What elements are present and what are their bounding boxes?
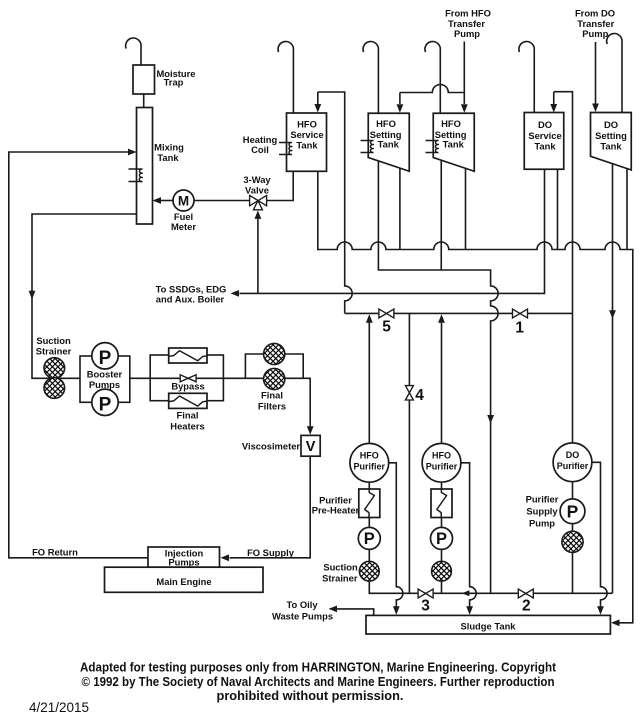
svg-text:Pre-Heater: Pre-Heater: [312, 504, 360, 515]
arrow into mixing tank (FO return): [128, 149, 137, 156]
svg-text:FO Return: FO Return: [32, 547, 78, 558]
wire HFO setting tank suction header to purifier suction manifold: [378, 161, 498, 593]
wire DO purifier sludge discharge: [592, 462, 607, 607]
valve 2: [518, 589, 533, 598]
final heaters parallel loop: [150, 355, 223, 401]
arrow left on purifier suction manifold: [462, 590, 470, 596]
heater box final heater bottom: [169, 393, 207, 408]
wire transfer manifold valves 5 and 1: [345, 312, 573, 314]
arrow up purifier 1 into manifold: [366, 314, 373, 323]
mixing tank: [137, 108, 153, 225]
svg-text:Tank: Tank: [296, 139, 318, 150]
svg-text:Supply: Supply: [526, 505, 558, 516]
booster pumps parallel loop: [80, 356, 130, 402]
svg-text:Setting: Setting: [595, 130, 627, 141]
svg-text:HFO: HFO: [432, 450, 451, 460]
wire HFO service tank fill line: [318, 92, 352, 313]
wire HFO purifier 2 sludge discharge: [461, 463, 476, 608]
valve 3: [418, 589, 433, 598]
purifier 2 suction strainer: [432, 561, 452, 581]
arrow down mid-line on tank outlet: [29, 291, 36, 300]
wire 3-way valve to fuel meter: [194, 200, 250, 202]
valve 1: [513, 309, 528, 318]
svg-text:Pump: Pump: [454, 28, 480, 39]
svg-text:Tank: Tank: [534, 141, 556, 152]
svg-text:P: P: [567, 502, 579, 522]
svg-text:HFO: HFO: [441, 118, 461, 129]
heater box purifier pre-heater 2: [431, 489, 452, 518]
wire DO setting tank overflow: [626, 169, 628, 250]
purifier supply strainer: [562, 531, 583, 552]
svg-text:Tank: Tank: [378, 139, 400, 150]
svg-text:DO: DO: [604, 119, 618, 130]
svg-text:3: 3: [421, 598, 430, 615]
svg-text:Service: Service: [528, 130, 561, 141]
valve 4: [405, 386, 413, 400]
svg-text:Trap: Trap: [164, 77, 184, 88]
svg-text:5: 5: [382, 319, 391, 336]
svg-text:Suction: Suction: [323, 561, 358, 572]
svg-text:V: V: [306, 439, 316, 455]
wire fuel meter to mixing tank: [160, 200, 173, 202]
svg-text:Waste Pumps: Waste Pumps: [272, 610, 333, 621]
arrow down into DO service tank: [550, 104, 557, 113]
arrow left FO supply into injection pumps: [221, 554, 230, 561]
heating coil mixing tank: [129, 169, 143, 182]
wire FO return loop: [9, 152, 148, 558]
svg-text:Pump: Pump: [529, 517, 555, 528]
wire HFO setting tank 2 overflow: [465, 168, 467, 249]
svg-text:prohibited without permission.: prohibited without permission.: [217, 688, 404, 703]
heater zigzag final heater top: [169, 351, 207, 361]
suction strainer main bottom: [44, 378, 65, 399]
heater zigzag pre-heater 2: [437, 489, 447, 518]
final filter top: [264, 343, 285, 364]
svg-text:Valve: Valve: [245, 184, 269, 195]
tank HFO service: [287, 113, 327, 171]
3-way valve: [250, 195, 267, 205]
arrow left to oily waste pumps: [329, 606, 338, 613]
heater zigzag pre-heater 1: [365, 489, 375, 518]
moisture trap: [133, 65, 155, 94]
heater zigzag final heater bottom: [169, 396, 207, 406]
svg-text:P: P: [99, 395, 112, 416]
svg-text:Strainer: Strainer: [36, 345, 72, 356]
arrow down into HFO service tank: [314, 104, 321, 113]
vent hook HFO setting tank 1: [363, 42, 378, 114]
vent hook DO setting tank: [607, 34, 622, 113]
wire DO setting tank suction column: [612, 164, 614, 594]
booster pump P bottom: [92, 389, 118, 415]
arrow left to SSDGs: [231, 290, 240, 297]
arrow down purifier 2 discharge into sludge tank: [466, 606, 473, 615]
arrow down into DO setting tank: [592, 104, 599, 113]
wire HFO setting tank 1 overflow: [399, 168, 401, 249]
tank DO service: [524, 113, 564, 170]
wire viscosimeter to FO supply: [230, 456, 311, 558]
wire purifier suction manifold: [369, 482, 612, 593]
wire HFO purifier 1 sludge discharge: [389, 463, 403, 608]
vent hook DO service tank: [519, 42, 534, 113]
svg-text:Tank: Tank: [600, 141, 622, 152]
svg-text:Purifier: Purifier: [426, 462, 458, 472]
svg-text:4: 4: [415, 387, 424, 404]
arrow left overflow into sludge tank right: [611, 619, 620, 626]
svg-text:4/21/2015: 4/21/2015: [29, 700, 89, 715]
svg-text:Tank: Tank: [157, 152, 179, 163]
svg-text:P: P: [436, 530, 447, 548]
svg-text:HFO: HFO: [297, 118, 317, 129]
bypass valve: [180, 375, 196, 382]
heater box purifier pre-heater 1: [359, 489, 380, 518]
svg-text:Meter: Meter: [171, 221, 196, 232]
purifier 1 suction strainer: [359, 561, 379, 581]
booster pump P top: [92, 343, 118, 369]
svg-text:DO: DO: [538, 119, 552, 130]
svg-text:Final: Final: [177, 410, 199, 421]
suction strainer main top: [44, 358, 65, 379]
arrow fuel meter into mixing tank: [153, 197, 162, 204]
arrow down into HFO setting tank 2: [461, 104, 468, 113]
purifier supply pump P: [560, 499, 585, 524]
wire 3-way valve up-feed from SSDG line: [257, 219, 259, 294]
heater box final heater top: [169, 348, 207, 363]
svg-text:Pump: Pump: [582, 28, 608, 39]
svg-text:DO: DO: [566, 450, 580, 460]
wire main line booster to filters to viscosimeter drop: [130, 378, 310, 428]
tank HFO setting 2: [433, 113, 474, 171]
svg-text:Strainer: Strainer: [322, 572, 358, 583]
arrow up into 3-way valve: [255, 210, 262, 219]
svg-text:FO Supply: FO Supply: [247, 547, 295, 558]
svg-text:Sludge Tank: Sludge Tank: [460, 620, 516, 631]
svg-text:Pumps: Pumps: [89, 379, 120, 390]
final filter bottom: [264, 368, 285, 389]
svg-text:© 1992 by The Society of Naval: © 1992 by The Society of Naval Architect…: [82, 674, 555, 689]
svg-text:Main Engine: Main Engine: [156, 576, 211, 587]
svg-text:Purifier: Purifier: [557, 461, 589, 471]
svg-text:Purifier: Purifier: [354, 462, 386, 472]
wire DO purifier supply column: [572, 482, 574, 594]
wire HFO setting tanks feed header: [400, 85, 464, 93]
purifier 1 pump P: [358, 527, 380, 549]
wire moisture trap stub: [143, 94, 145, 108]
wire HFO purifier 1 discharge up to manifold: [368, 323, 370, 444]
wire to oily waste pumps: [337, 609, 374, 616]
sludge tank: [366, 615, 610, 634]
fuel meter circle: [173, 190, 194, 211]
wire HFO purifier 2 discharge up to manifold: [441, 323, 443, 444]
arrow down into HFO setting tank 1: [397, 104, 404, 113]
svg-text:Heaters: Heaters: [170, 421, 204, 432]
arrow up purifier 2 into manifold: [438, 314, 445, 323]
tank HFO setting 1: [368, 113, 409, 171]
svg-text:2: 2: [522, 598, 531, 615]
vent hook HFO setting tank 2: [425, 42, 440, 114]
heating coil HFO setting tank 1: [361, 140, 374, 152]
svg-text:Pumps: Pumps: [168, 556, 199, 567]
tank DO setting: [591, 113, 632, 171]
vent hook HFO service tank: [278, 42, 293, 113]
wire mixing tank outlet to suction strainer: [32, 214, 137, 378]
svg-text:HFO: HFO: [360, 450, 379, 460]
svg-text:P: P: [364, 530, 375, 548]
arrow down into viscosimeter: [307, 426, 314, 435]
wire DO service tank overflow: [557, 169, 559, 249]
HFO purifier 2 circle: [422, 443, 461, 482]
svg-text:HFO: HFO: [376, 118, 396, 129]
arrow down DO purifier discharge into sludge tank: [597, 606, 604, 615]
main engine: [105, 567, 264, 592]
wire HFO service tank suction to 3-way valve: [267, 171, 294, 200]
wire DO purifier to DO service tank fill: [554, 92, 573, 443]
wire from DO transfer pump drop: [595, 42, 597, 104]
wire overflow manifold from HFO service tank to sludge tank right: [318, 171, 633, 623]
HFO purifier 1 circle: [350, 443, 389, 482]
heating coil HFO setting tank 2: [426, 140, 439, 152]
svg-text:To Oily: To Oily: [286, 599, 318, 610]
valve 5: [379, 309, 394, 318]
wire valve 4 line: [408, 313, 410, 592]
wire filter bypass branch: [245, 354, 303, 378]
svg-text:1: 1: [515, 319, 524, 336]
wire from HFO transfer pump drop: [463, 42, 465, 105]
svg-text:M: M: [178, 193, 189, 208]
heating coil HFO service tank: [279, 142, 292, 154]
injection pumps: [148, 547, 220, 567]
arrow down DO setting suction mid-line: [609, 310, 616, 319]
wire DO service tank suction to SSDG line: [240, 169, 545, 293]
DO purifier circle: [553, 443, 592, 482]
wire HFO purifier 2 suction column: [441, 482, 443, 593]
arrow down purifier 1 discharge into sludge tank: [393, 606, 400, 615]
vent hook mixing tank: [126, 38, 141, 65]
svg-text:Bypass: Bypass: [171, 380, 204, 391]
svg-text:Purifier: Purifier: [526, 493, 559, 504]
svg-text:P: P: [99, 348, 112, 369]
svg-text:and Aux. Boiler: and Aux. Boiler: [156, 294, 225, 305]
svg-text:Final: Final: [261, 389, 283, 400]
svg-text:Filters: Filters: [258, 400, 286, 411]
svg-text:Viscosimeter: Viscosimeter: [242, 441, 301, 452]
svg-text:Tank: Tank: [443, 139, 465, 150]
svg-text:Coil: Coil: [251, 144, 269, 155]
svg-text:Adapted for testing purposes o: Adapted for testing purposes only from H…: [80, 660, 557, 675]
purifier 2 pump P: [431, 527, 453, 549]
viscosimeter: [301, 435, 320, 456]
wire HFO setting tank 2 suction: [440, 160, 442, 270]
arrow down setting header mid-line: [487, 415, 494, 424]
